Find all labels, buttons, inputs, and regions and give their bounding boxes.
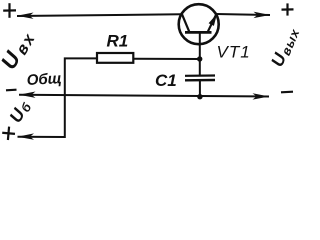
svg-text:R1: R1 xyxy=(107,32,129,51)
svg-text:C1: C1 xyxy=(155,71,177,90)
svg-text:Общ: Общ xyxy=(26,70,62,89)
svg-text:VT1: VT1 xyxy=(217,43,251,62)
